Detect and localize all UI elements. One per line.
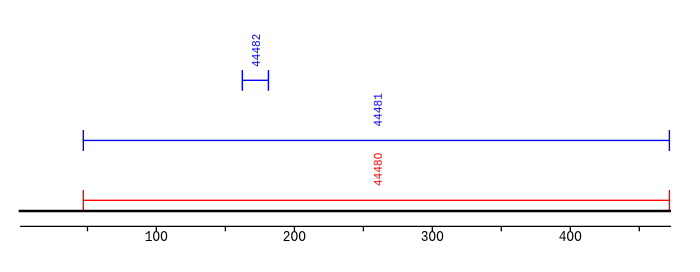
tick 150 xyxy=(224,226,226,231)
sequence baseline (thick black line) xyxy=(19,210,671,213)
tick 100 xyxy=(155,226,157,231)
svg-text:3OO: 3OO xyxy=(421,229,444,246)
feature 44482 (short blue segment with end caps) xyxy=(242,70,268,91)
svg-text:44482: 44482 xyxy=(250,34,264,67)
svg-text:4OO: 4OO xyxy=(559,229,582,246)
ruler axis line xyxy=(20,225,671,227)
tick 50 xyxy=(87,226,89,231)
tick 450 xyxy=(638,226,640,231)
tick 300 xyxy=(431,226,433,231)
tick 250 xyxy=(362,226,364,231)
svg-text:2OO: 2OO xyxy=(283,229,306,246)
svg-text:44481: 44481 xyxy=(372,93,386,126)
tick 400 xyxy=(569,226,571,231)
svg-text:4448O: 4448O xyxy=(372,153,386,186)
svg-text:1OO: 1OO xyxy=(145,229,168,246)
tick 200 xyxy=(293,226,295,231)
feature 44481 (long blue segment with end caps) xyxy=(83,130,669,151)
feature 44480 (long red segment with end caps) xyxy=(83,190,669,210)
tick 350 xyxy=(500,226,502,231)
